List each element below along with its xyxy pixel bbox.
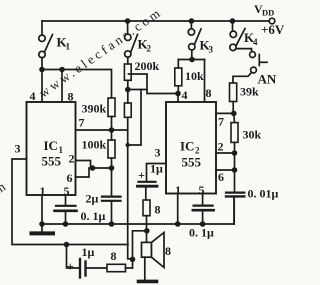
- resistor 39k: [230, 83, 237, 102]
- node 2u/ground bus: [109, 221, 115, 227]
- wire IC2 pin6: [216, 169, 235, 171]
- svg-text:5: 5: [199, 183, 205, 197]
- svg-text:555: 555: [182, 155, 202, 170]
- switch K1: [39, 21, 53, 70]
- wire IC1 pin7: [76, 129, 128, 131]
- resistor 10k: [175, 68, 182, 86]
- svg-text:555: 555: [42, 154, 62, 169]
- svg-text:4: 4: [253, 37, 258, 47]
- node pin8: [59, 67, 65, 73]
- wire IC1 pin4 lead: [41, 70, 43, 103]
- svg-text:IC: IC: [180, 139, 194, 154]
- wire 10k top lead: [177, 60, 179, 69]
- switch K4: [230, 21, 252, 52]
- wire IC1 pin3 left: [12, 159, 128, 245]
- node mixer: [130, 257, 136, 263]
- wire pin2 to pin6: [234, 153, 236, 170]
- wire IC1 pin1 lead: [41, 195, 43, 224]
- svg-text:0. 1μ: 0. 1μ: [81, 209, 106, 223]
- node pin1 (IC2)/bus: [175, 221, 181, 227]
- node pin6 (IC2): [232, 167, 238, 173]
- node K4 tap: [230, 18, 236, 24]
- wire IC2 pin2: [216, 152, 235, 154]
- wire loop bottom edge: [128, 89, 147, 91]
- node pin7/390k/100k: [109, 127, 115, 133]
- VDD terminal: [269, 18, 275, 24]
- svg-text:2: 2: [218, 140, 224, 154]
- label K3: [200, 38, 214, 55]
- wire divider top lead: [127, 90, 129, 104]
- svg-text:8: 8: [165, 244, 171, 258]
- op-amp U1: IC1 555 box: [27, 102, 76, 195]
- wire hang branch: [128, 90, 141, 146]
- node K3 bottom: [189, 57, 195, 63]
- node hang junction: [126, 143, 130, 147]
- wire node to 100k: [89, 167, 112, 169]
- svg-text:+: +: [67, 259, 74, 274]
- label IC1 555: [42, 138, 64, 169]
- wire IC2 pin3: [147, 164, 167, 182]
- wire K3 bus: [178, 59, 204, 61]
- ground (speaker): [139, 280, 157, 284]
- wire IC2 pin5 lead: [202, 194, 204, 206]
- node speaker feed: [144, 228, 150, 234]
- node pin7 (IC2): [231, 111, 237, 117]
- wire 8-resistor to riser: [126, 267, 133, 269]
- wire 39k bottom lead: [232, 102, 234, 114]
- capacitor 2u: [102, 168, 121, 224]
- wire IC1 pin5 lead: [65, 195, 67, 206]
- switch K3: [188, 21, 201, 60]
- svg-text:4: 4: [182, 88, 188, 102]
- resistor 100k: [108, 140, 115, 158]
- svg-text:200k: 200k: [135, 59, 160, 73]
- resistor 200k: [124, 64, 131, 80]
- svg-text:IC: IC: [44, 138, 58, 153]
- wire 30k bottom lead: [234, 142, 236, 153]
- push button AN: [233, 52, 267, 83]
- node K2 tap: [125, 18, 131, 24]
- svg-text:com: com: [0, 177, 10, 207]
- label IC2 555: [180, 139, 202, 170]
- svg-text:390k: 390k: [82, 102, 107, 116]
- label K4: [244, 30, 258, 47]
- node 1u tap: [64, 242, 70, 248]
- svg-text:2: 2: [69, 152, 75, 166]
- wire 8-resistor to speaker node: [146, 216, 148, 231]
- resistor divider lower (unlabeled): [124, 103, 131, 117]
- svg-text:1μ: 1μ: [150, 162, 163, 176]
- resistor 8 (vertical): [143, 200, 150, 216]
- node 0.1u/bus: [63, 221, 69, 227]
- svg-text:1μ: 1μ: [82, 245, 95, 259]
- svg-text:AN: AN: [258, 72, 277, 87]
- node K1/pin4: [39, 67, 45, 73]
- svg-text:7: 7: [218, 115, 224, 129]
- svg-text:100k: 100k: [82, 138, 107, 152]
- svg-text:6: 6: [218, 170, 224, 184]
- wire 10k bottom lead: [177, 86, 179, 94]
- svg-text:10k: 10k: [185, 69, 204, 83]
- svg-text:3: 3: [15, 142, 21, 156]
- wire IC1 top bus: [42, 70, 112, 99]
- node pin4 (IC2): [175, 91, 181, 97]
- resistor 390k: [108, 98, 115, 117]
- wire 200k bottom lead: [127, 80, 129, 89]
- wire ground bus: [42, 223, 234, 225]
- wire mixer riser: [133, 231, 148, 268]
- op-amp U2: IC2 555 box: [166, 102, 216, 194]
- svg-text:3: 3: [155, 146, 161, 160]
- svg-text:2μ: 2μ: [86, 192, 99, 206]
- label K2: [138, 37, 152, 54]
- svg-text:1: 1: [66, 42, 71, 52]
- capacitor 1u electrolytic (left): [67, 245, 108, 278]
- wire IC2 pin1 lead: [177, 194, 179, 225]
- node pin1/bus: [39, 221, 45, 227]
- svg-text:8: 8: [111, 249, 117, 263]
- svg-text:7: 7: [79, 116, 85, 130]
- ground (IC1): [32, 224, 54, 233]
- svg-text:0. 1μ: 0. 1μ: [189, 226, 214, 240]
- watermark www.elecfans.com: [0, 4, 165, 207]
- node K3 tap: [189, 18, 195, 24]
- svg-text:6: 6: [67, 171, 73, 185]
- svg-text:30k: 30k: [243, 128, 262, 142]
- svg-text:2: 2: [147, 44, 152, 54]
- wire bus right end up to 0.01u: [233, 196, 235, 224]
- wire pin6 jog: [76, 170, 90, 178]
- node 100k/2u: [109, 165, 115, 171]
- svg-text:+6V: +6V: [261, 22, 285, 37]
- wire top supply rail: [42, 20, 269, 22]
- node 0.1u (IC2)/bus: [200, 221, 206, 227]
- wire pin2 jog: [76, 161, 91, 167]
- svg-text:+: +: [138, 168, 145, 182]
- label K1: [57, 35, 71, 52]
- wire 390k bottom lead: [111, 117, 113, 131]
- wire IC2 pin8 lead: [204, 60, 206, 103]
- capacitor 0.1u (IC2): [193, 206, 214, 224]
- node pin2 (IC2): [232, 150, 238, 156]
- node pin2/pin6: [90, 165, 96, 171]
- resistor 30k: [231, 123, 238, 143]
- wire IC2 pin4 lead: [177, 94, 179, 103]
- svg-text:8: 8: [206, 86, 212, 100]
- speaker LS: [142, 233, 165, 280]
- svg-text:3: 3: [209, 45, 214, 55]
- svg-text:4: 4: [30, 89, 36, 103]
- wire long vertical from divider: [128, 117, 133, 258]
- wire 30k top lead: [233, 113, 236, 122]
- svg-text:39k: 39k: [240, 85, 259, 99]
- label VDD: [254, 2, 274, 18]
- resistor 8 (left horizontal): [107, 264, 126, 271]
- svg-text:8: 8: [155, 203, 161, 217]
- node 200k bottom: [125, 87, 131, 93]
- wire IC1 pin8 lead: [61, 70, 63, 103]
- capacitor 1u (coupling): [138, 182, 158, 200]
- wire IC2 pin7: [216, 112, 234, 114]
- svg-text:DD: DD: [262, 8, 274, 18]
- wire 100k top lead: [111, 130, 113, 140]
- svg-text:5: 5: [64, 184, 70, 198]
- svg-text:0. 01μ: 0. 01μ: [248, 187, 279, 201]
- capacitor 0.01u: [226, 170, 244, 224]
- capacitor 0.1u (IC1): [55, 206, 77, 224]
- wire speaker lead: [146, 231, 148, 243]
- switch K2: [125, 21, 138, 64]
- wire 100k bottom lead: [111, 158, 113, 168]
- wire feedback loop rectangle: [129, 74, 179, 94]
